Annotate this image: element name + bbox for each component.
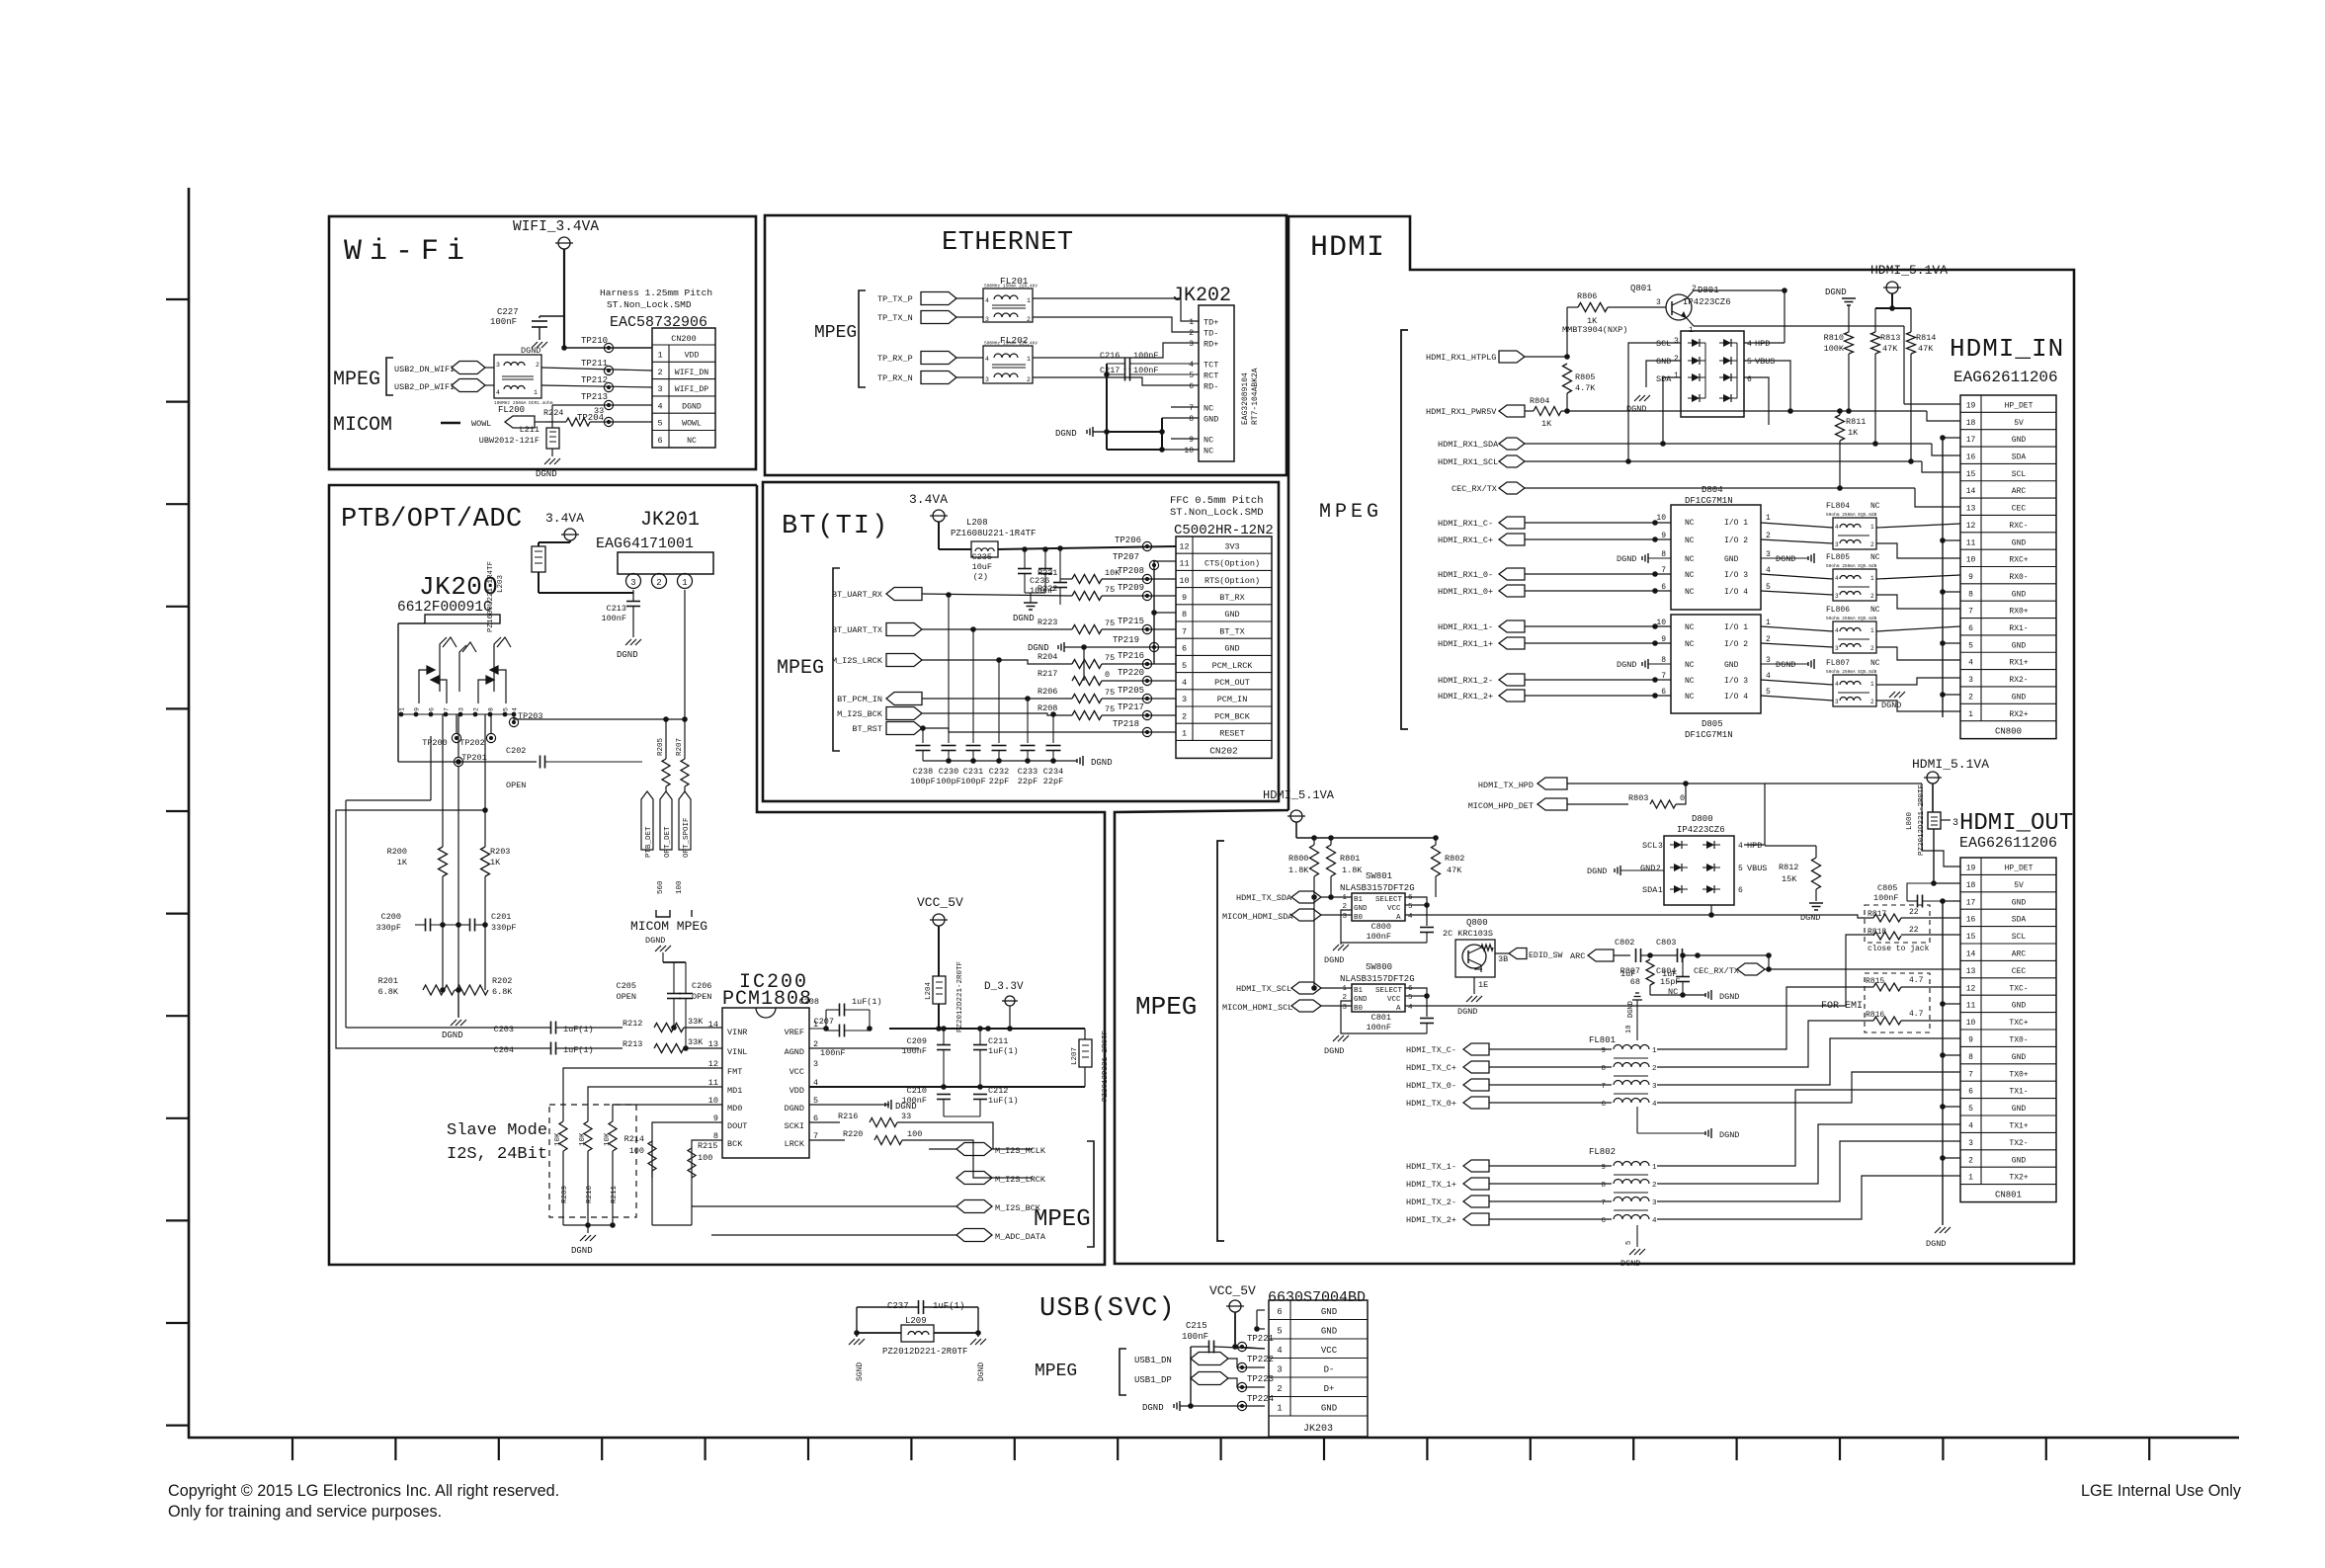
svg-text:1: 1	[1182, 729, 1187, 739]
svg-text:TP210: TP210	[581, 336, 608, 346]
svg-text:6: 6	[1968, 1088, 1973, 1097]
svg-text:TP219: TP219	[1113, 635, 1139, 645]
svg-text:C233: C233	[1018, 767, 1038, 777]
svg-text:R212: R212	[623, 1019, 642, 1029]
svg-text:HDMI_RX1_2+: HDMI_RX1_2+	[1438, 692, 1493, 701]
svg-text:5V: 5V	[2014, 419, 2024, 428]
svg-text:22pF: 22pF	[1043, 777, 1063, 786]
svg-text:FL804: FL804	[1826, 502, 1850, 511]
svg-text:1uF(1): 1uF(1)	[988, 1096, 1019, 1106]
svg-text:VCC: VCC	[1387, 905, 1401, 913]
svg-text:GND: GND	[1354, 905, 1368, 913]
svg-text:R214: R214	[624, 1134, 644, 1144]
svg-text:8: 8	[1601, 1065, 1606, 1073]
svg-text:HDMI_RX1_SDA: HDMI_RX1_SDA	[1438, 440, 1499, 450]
svg-text:C227: C227	[497, 307, 519, 317]
svg-text:13: 13	[1966, 505, 1976, 514]
svg-text:GND: GND	[1321, 1327, 1337, 1337]
svg-text:9: 9	[414, 707, 421, 711]
wire DGND row pin4	[552, 404, 652, 406]
svg-text:10: 10	[1656, 514, 1666, 523]
svg-text:6630S7004BD: 6630S7004BD	[1268, 1289, 1366, 1306]
svg-text:18: 18	[1966, 881, 1976, 890]
wire SW800 GND to DGND	[1341, 1001, 1427, 1033]
svg-text:I/O 2: I/O 2	[1724, 536, 1748, 545]
svg-text:10K: 10K	[554, 1132, 562, 1146]
svg-text:100pF: 100pF	[960, 777, 986, 786]
svg-text:6: 6	[1408, 894, 1413, 902]
svg-text:PZ1608U221-1R4TF: PZ1608U221-1R4TF	[951, 529, 1036, 538]
svg-text:1: 1	[657, 351, 662, 361]
svg-text:D_3.3V: D_3.3V	[984, 981, 1024, 993]
svg-text:SCL: SCL	[2012, 933, 2027, 942]
svg-text:LGE Internal Use Only: LGE Internal Use Only	[2081, 1482, 2242, 1500]
svg-text:R210: R210	[586, 1185, 594, 1203]
svg-text:C215: C215	[1186, 1321, 1207, 1331]
svg-text:R202: R202	[492, 976, 512, 986]
svg-text:1K: 1K	[490, 858, 501, 867]
svg-text:VCC_5V: VCC_5V	[1209, 1283, 1256, 1298]
svg-text:Q800: Q800	[1466, 918, 1488, 928]
svg-text:4: 4	[985, 297, 989, 304]
svg-text:R206: R206	[1038, 687, 1057, 697]
svg-text:D800: D800	[1692, 814, 1713, 824]
svg-text:ARC: ARC	[2012, 487, 2027, 496]
svg-text:2: 2	[536, 362, 540, 369]
svg-text:FL801: FL801	[1589, 1035, 1616, 1045]
svg-text:C801: C801	[1371, 1013, 1391, 1023]
ground DGND under D801	[1634, 395, 1640, 401]
svg-text:RTS(Option): RTS(Option)	[1204, 576, 1260, 586]
svg-text:DGND: DGND	[1719, 992, 1739, 1002]
svg-text:D801: D801	[1698, 286, 1719, 295]
wire HDMI_RX1_0+ through filter to CN800	[1761, 591, 1833, 595]
svg-text:TX2-: TX2-	[2009, 1139, 2028, 1148]
svg-text:R811: R811	[1846, 417, 1866, 427]
svg-text:SELECT: SELECT	[1375, 896, 1403, 904]
svg-text:3: 3	[1652, 1199, 1657, 1207]
svg-text:VINR: VINR	[727, 1028, 747, 1037]
svg-text:(2): (2)	[973, 572, 988, 582]
svg-text:6: 6	[1601, 1217, 1606, 1225]
svg-text:4.7K: 4.7K	[1575, 383, 1596, 393]
svg-text:1: 1	[1342, 894, 1347, 902]
svg-text:4: 4	[1182, 678, 1187, 688]
jk200 jack contact symbols	[440, 637, 447, 692]
svg-text:3: 3	[1342, 1004, 1347, 1012]
svg-text:560: 560	[657, 880, 665, 894]
svg-text:DGND: DGND	[1881, 701, 1901, 710]
svg-text:MPEG: MPEG	[777, 657, 824, 680]
svg-text:330pF: 330pF	[375, 923, 401, 933]
section box HDMI (HDMI_IN and HDMI_OUT)	[1115, 216, 2074, 1264]
section box Wi-Fi	[329, 216, 756, 469]
svg-text:CEC: CEC	[2012, 505, 2027, 514]
svg-text:MPEG: MPEG	[814, 323, 857, 343]
svg-text:9: 9	[1182, 593, 1187, 603]
svg-text:GND: GND	[1321, 1404, 1337, 1414]
svg-text:3: 3	[630, 578, 635, 588]
svg-text:RX0-: RX0-	[2009, 573, 2028, 582]
svg-text:19: 19	[1966, 865, 1976, 873]
svg-text:JK201: JK201	[640, 509, 700, 532]
svg-text:BT_UART_TX: BT_UART_TX	[832, 625, 882, 635]
svg-text:NC: NC	[1685, 555, 1695, 564]
svg-text:NC: NC	[1685, 536, 1695, 545]
svg-text:1: 1	[1968, 710, 1973, 719]
svg-text:RX1-: RX1-	[2009, 624, 2028, 633]
svg-text:USB2_DN_WIFI: USB2_DN_WIFI	[394, 365, 455, 374]
svg-text:EAG32089104: EAG32089104	[1241, 372, 1250, 425]
svg-text:NC: NC	[1870, 553, 1880, 562]
svg-text:100: 100	[629, 1146, 644, 1156]
svg-text:100nF: 100nF	[1366, 932, 1391, 942]
svg-text:A: A	[1396, 1005, 1401, 1013]
label MICOM MPEG (ptb)	[656, 910, 670, 917]
svg-text:4: 4	[1766, 672, 1771, 681]
svg-text:OPEN: OPEN	[506, 781, 526, 790]
svg-text:TP213: TP213	[581, 392, 608, 402]
svg-text:B1: B1	[1354, 987, 1364, 995]
svg-text:14: 14	[708, 1020, 718, 1030]
svg-text:R223: R223	[1038, 618, 1057, 627]
svg-text:10uF: 10uF	[972, 562, 992, 572]
svg-text:TP207: TP207	[1113, 552, 1139, 562]
net tag M_ADC_DATA	[956, 1229, 992, 1242]
svg-text:FL802: FL802	[1589, 1147, 1616, 1157]
svg-text:SCL: SCL	[1656, 339, 1671, 349]
svg-text:GND: GND	[2012, 538, 2027, 547]
wire usb gnd pins bus	[1256, 1310, 1258, 1329]
ground DGND (jk200 filters)	[457, 990, 459, 1018]
svg-text:B0: B0	[1354, 914, 1364, 922]
svg-text:7: 7	[1968, 608, 1973, 617]
svg-text:VBUS: VBUS	[1747, 864, 1767, 873]
svg-text:10: 10	[1625, 1026, 1633, 1033]
svg-text:DGND: DGND	[1776, 660, 1795, 670]
svg-text:R204: R204	[1038, 652, 1057, 662]
svg-text:HPD: HPD	[1747, 841, 1762, 851]
net tag M_I2S_LRCK (adc)	[956, 1172, 992, 1185]
svg-text:3: 3	[1674, 337, 1679, 346]
svg-text:3: 3	[1277, 1365, 1282, 1375]
svg-text:HDMI_TX_0+: HDMI_TX_0+	[1406, 1099, 1456, 1109]
svg-text:PTB_DET: PTB_DET	[645, 826, 653, 858]
svg-text:R216: R216	[838, 1112, 858, 1121]
svg-text:UBW2012-121F: UBW2012-121F	[479, 436, 540, 446]
svg-text:4: 4	[1968, 659, 1973, 668]
svg-text:TP222: TP222	[1247, 1355, 1274, 1364]
wire C237 L209 loop	[856, 1307, 858, 1337]
wire HPD net to CN801 pin19	[1765, 783, 1922, 784]
border ruler vertical line	[188, 188, 191, 1439]
svg-text:DGND: DGND	[1620, 1259, 1640, 1269]
svg-text:1: 1	[1766, 619, 1771, 627]
svg-text:DGND: DGND	[1091, 758, 1113, 768]
svg-text:FOR EMI: FOR EMI	[1821, 1001, 1863, 1012]
bracket MPEG adc	[1087, 1141, 1094, 1247]
svg-text:DGND: DGND	[1776, 554, 1795, 564]
svg-text:RD+: RD+	[1204, 340, 1218, 350]
svg-text:1: 1	[1652, 1164, 1657, 1172]
svg-text:GND: GND	[1724, 555, 1739, 564]
svg-text:Slave Mode: Slave Mode	[447, 1121, 547, 1140]
wire audio left channel to C203	[430, 736, 432, 800]
svg-text:NC: NC	[1204, 436, 1213, 446]
svg-text:8: 8	[488, 707, 495, 711]
wire BT_UART_TX to R223	[922, 628, 1072, 630]
svg-text:4: 4	[1766, 566, 1771, 575]
svg-text:DGND: DGND	[682, 402, 702, 411]
svg-text:Wi-Fi: Wi-Fi	[344, 235, 472, 269]
wire FL201 out to JK202 TD+	[1033, 298, 1199, 321]
svg-text:2: 2	[1182, 711, 1187, 721]
svg-text:M_I2S_MCLK: M_I2S_MCLK	[995, 1146, 1046, 1156]
svg-text:NC: NC	[1685, 693, 1695, 701]
svg-text:C234: C234	[1043, 767, 1063, 777]
svg-text:6: 6	[1738, 886, 1743, 895]
svg-text:RX2-: RX2-	[2009, 676, 2028, 685]
svg-text:1uF(1): 1uF(1)	[988, 1046, 1019, 1056]
svg-text:MICOM: MICOM	[333, 414, 392, 437]
svg-text:9: 9	[1601, 1164, 1606, 1172]
wire D801 HPD pin to Q801 net	[1744, 342, 1785, 344]
svg-text:GND: GND	[2012, 1002, 2027, 1011]
svg-text:DGND: DGND	[1719, 1130, 1739, 1140]
svg-text:SDA: SDA	[1656, 374, 1672, 384]
svg-text:TP206: TP206	[1115, 536, 1141, 545]
svg-text:ARC: ARC	[1570, 951, 1585, 961]
svg-text:DGND: DGND	[1055, 429, 1077, 439]
svg-text:50ohm 250mA EQ5.6dB: 50ohm 250mA EQ5.6dB	[1826, 669, 1877, 675]
svg-text:5: 5	[1408, 994, 1413, 1002]
connector table CN200	[652, 328, 715, 448]
svg-text:1: 1	[1870, 681, 1874, 688]
svg-text:3: 3	[496, 362, 500, 369]
svg-text:4: 4	[1835, 627, 1839, 634]
svg-text:RX0+: RX0+	[2009, 608, 2028, 617]
svg-text:GND: GND	[2012, 898, 2027, 907]
svg-text:R201: R201	[378, 976, 398, 986]
svg-text:1K: 1K	[397, 858, 408, 867]
svg-text:BT_RST: BT_RST	[852, 724, 882, 734]
wire jk200 ground row	[398, 761, 537, 763]
svg-text:R209: R209	[561, 1186, 569, 1203]
svg-text:2: 2	[1189, 329, 1194, 338]
svg-text:WIFI_3.4VA: WIFI_3.4VA	[513, 219, 599, 235]
svg-text:A: A	[1396, 914, 1401, 922]
svg-text:22pF: 22pF	[989, 777, 1009, 786]
svg-text:6: 6	[1189, 382, 1194, 391]
svg-text:RXC-: RXC-	[2009, 522, 2028, 531]
svg-text:5V: 5V	[2014, 881, 2024, 890]
wire D801 SCL to SCL net	[1628, 343, 1681, 461]
svg-text:OPT_DET: OPT_DET	[664, 826, 672, 858]
svg-text:JK200: JK200	[419, 572, 499, 602]
svg-text:SW800: SW800	[1366, 962, 1392, 972]
svg-text:DGND: DGND	[1626, 404, 1646, 414]
connector table CN202	[1176, 536, 1272, 758]
wire M_I2S_LRCK to R204	[922, 660, 1072, 664]
svg-text:17: 17	[1966, 436, 1976, 445]
capacitor C231 100pF	[972, 629, 974, 743]
svg-text:14: 14	[1966, 950, 1976, 959]
svg-text:L207: L207	[1071, 1047, 1079, 1065]
diode array D805 DF1CG7M1N	[1671, 615, 1761, 713]
svg-text:9: 9	[1968, 573, 1973, 582]
wire vcc to table	[1235, 1347, 1265, 1349]
svg-text:1: 1	[1968, 1174, 1973, 1183]
wire SW800 SELECT VCC	[1405, 988, 1427, 996]
svg-text:R207: R207	[676, 738, 684, 756]
svg-text:C231: C231	[963, 767, 983, 777]
svg-text:75: 75	[1105, 585, 1115, 595]
svg-text:15: 15	[1966, 933, 1976, 942]
svg-text:MD0: MD0	[727, 1104, 742, 1114]
wire D801 pin6	[1744, 377, 1769, 425]
wire CEC net	[1525, 487, 1915, 489]
svg-text:47K: 47K	[1918, 344, 1934, 354]
svg-text:1.8K: 1.8K	[1342, 866, 1363, 875]
svg-text:2C KRC103S: 2C KRC103S	[1443, 929, 1493, 939]
svg-text:FL805: FL805	[1826, 553, 1850, 562]
svg-text:3B: 3B	[1498, 954, 1508, 964]
svg-text:USB1_DN: USB1_DN	[1134, 1356, 1172, 1365]
svg-text:4: 4	[1652, 1217, 1657, 1225]
svg-text:HP_DET: HP_DET	[2005, 401, 2034, 410]
svg-text:1uF(1): 1uF(1)	[933, 1301, 964, 1311]
svg-text:TP208: TP208	[1118, 566, 1144, 576]
net tag M_I2S_BCK (adc)	[956, 1200, 992, 1213]
svg-text:HDMI_TX_SCL: HDMI_TX_SCL	[1236, 984, 1291, 994]
svg-text:C200: C200	[381, 912, 401, 922]
svg-text:R806: R806	[1577, 291, 1597, 301]
svg-text:4: 4	[496, 389, 500, 396]
svg-text:4.7: 4.7	[1909, 976, 1924, 985]
net tag OPT_SPOIF (vertical)	[679, 791, 691, 850]
svg-text:10: 10	[1966, 556, 1976, 565]
svg-text:3: 3	[985, 316, 989, 323]
svg-text:C800: C800	[1371, 922, 1391, 932]
svg-text:12: 12	[1179, 541, 1189, 551]
svg-text:MICOM_HPD_DET: MICOM_HPD_DET	[1468, 801, 1534, 811]
svg-text:SCL: SCL	[2012, 470, 2027, 479]
svg-text:JK202: JK202	[1172, 285, 1231, 307]
svg-text:IP4223CZ6: IP4223CZ6	[1677, 825, 1725, 835]
svg-text:1: 1	[1277, 1404, 1282, 1414]
svg-text:100nF: 100nF	[1182, 1332, 1208, 1342]
svg-text:2: 2	[1870, 593, 1874, 600]
svg-text:TP209: TP209	[1118, 583, 1144, 593]
svg-text:RX1+: RX1+	[2009, 659, 2028, 668]
bracket MPEG bt	[833, 568, 840, 751]
ground DGND bottom hdmi in	[1889, 692, 1895, 698]
svg-text:PCM_IN: PCM_IN	[1217, 695, 1248, 704]
svg-text:3: 3	[813, 1059, 818, 1069]
svg-text:100: 100	[698, 1153, 712, 1163]
svg-text:B0: B0	[1354, 1005, 1364, 1013]
connector table JK203	[1269, 1300, 1368, 1437]
svg-text:1: 1	[1189, 318, 1194, 327]
svg-text:100: 100	[676, 880, 684, 894]
svg-text:L208: L208	[966, 518, 988, 528]
svg-text:5: 5	[1408, 903, 1413, 911]
svg-text:MPEG: MPEG	[1135, 992, 1197, 1022]
wire R806 base feed from HTPLG net	[1566, 307, 1568, 357]
svg-text:CEC: CEC	[2012, 967, 2027, 976]
svg-text:USB2_DP_WIFI: USB2_DP_WIFI	[394, 382, 455, 392]
wire HDMI_RX1_2- through filter to CN800	[1761, 680, 1833, 685]
svg-text:HDMI_TX_2+: HDMI_TX_2+	[1406, 1215, 1456, 1225]
svg-text:SDA: SDA	[2012, 916, 2027, 925]
svg-text:22: 22	[1909, 908, 1919, 917]
bracket MPEG wifi	[386, 358, 393, 395]
svg-text:4.7: 4.7	[1909, 1010, 1924, 1019]
svg-text:SDA: SDA	[2012, 454, 2027, 462]
svg-text:MPEG: MPEG	[1035, 1362, 1077, 1381]
wire HDMI_RX1_1- through filter to CN800	[1761, 626, 1833, 631]
svg-text:5: 5	[1968, 641, 1973, 650]
svg-text:TP212: TP212	[581, 375, 608, 385]
svg-text:4: 4	[1968, 1122, 1973, 1131]
wire WIFI_3.4VA to CN200 pin1	[563, 249, 565, 348]
svg-text:B1: B1	[1354, 896, 1364, 904]
svg-text:PZ2012D221-2R0TF: PZ2012D221-2R0TF	[1102, 1031, 1110, 1102]
svg-text:C203: C203	[494, 1025, 514, 1034]
svg-text:I/O 4: I/O 4	[1724, 693, 1748, 701]
svg-text:3: 3	[1835, 541, 1839, 548]
svg-text:MICOM MPEG: MICOM MPEG	[630, 919, 707, 934]
svg-text:HDMI_TX_1-: HDMI_TX_1-	[1406, 1162, 1456, 1172]
svg-text:DGND: DGND	[785, 1104, 804, 1114]
svg-text:DGND: DGND	[1324, 1046, 1344, 1056]
svg-text:2: 2	[1766, 532, 1771, 540]
bracket MPEG hdmi in	[1401, 330, 1408, 729]
wire gnd bus hdmi out	[1942, 901, 1944, 1225]
svg-text:100nF: 100nF	[820, 1048, 846, 1058]
svg-text:DGND: DGND	[1587, 867, 1607, 876]
svg-text:4: 4	[985, 356, 989, 363]
border ruler left tick marks	[166, 298, 189, 300]
svg-text:2: 2	[1027, 376, 1031, 383]
wire HDMI_RX1_0- through filter to CN800	[1761, 574, 1833, 579]
svg-text:100nF: 100nF	[490, 317, 517, 327]
svg-text:R215: R215	[698, 1141, 717, 1151]
svg-text:L800: L800	[1906, 811, 1914, 830]
dashed box close to jack resistors	[1865, 905, 1930, 943]
svg-text:1: 1	[1027, 297, 1031, 304]
svg-text:NC: NC	[1204, 404, 1213, 414]
svg-text:MPEG: MPEG	[333, 369, 380, 391]
svg-text:C213: C213	[607, 604, 626, 614]
wire FMT MD1 MD0 DOUT BCK left routing	[563, 1068, 722, 1121]
svg-text:1: 1	[534, 389, 538, 396]
wire FL202 out to JK202 RD+	[1033, 343, 1199, 358]
svg-text:DGND: DGND	[1627, 1001, 1635, 1018]
svg-text:HPD: HPD	[1755, 339, 1770, 349]
svg-text:OPEN: OPEN	[692, 992, 711, 1002]
svg-text:R800: R800	[1288, 854, 1308, 864]
svg-text:close to jack: close to jack	[1868, 945, 1930, 953]
svg-text:R810: R810	[1824, 333, 1844, 343]
svg-text:TP223: TP223	[1247, 1374, 1274, 1384]
svg-text:TP217: TP217	[1118, 702, 1144, 712]
svg-text:BT_RX: BT_RX	[1219, 593, 1245, 603]
svg-text:50ohm 250mA EQ5.6dB: 50ohm 250mA EQ5.6dB	[1826, 616, 1877, 621]
capacitor C213 100nF	[632, 590, 634, 601]
svg-text:GND: GND	[1724, 661, 1739, 670]
svg-text:8: 8	[1189, 415, 1194, 424]
